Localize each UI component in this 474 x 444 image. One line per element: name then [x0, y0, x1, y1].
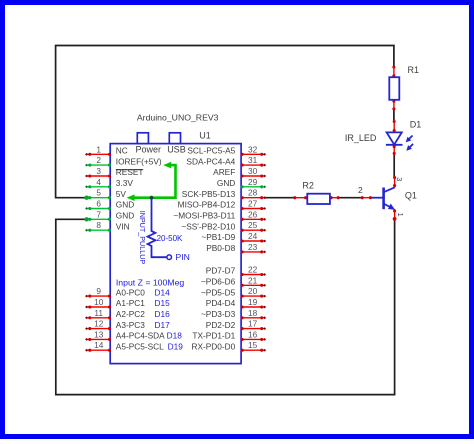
svg-text:28: 28: [248, 188, 258, 198]
node GND junction at pin 7: [84, 217, 88, 221]
IC U1 Arduino_UNO_REV3 body: [110, 133, 241, 364]
resistor R2: [293, 181, 340, 204]
svg-text:4: 4: [96, 177, 101, 187]
svg-text:IR_LED: IR_LED: [345, 133, 377, 143]
svg-text:SCL-PC5-A5: SCL-PC5-A5: [187, 146, 235, 156]
pin 3 RESET: [85, 166, 143, 178]
svg-text:21: 21: [248, 275, 258, 285]
RESET overline: [116, 169, 143, 171]
wire R2 to Q1 base: [338, 197, 362, 199]
pin 28 SCK-PB5-D13: [182, 188, 266, 200]
svg-text:5V: 5V: [116, 189, 127, 199]
svg-text:7: 7: [96, 209, 101, 219]
svg-text:SDA-PC4-A4: SDA-PC4-A4: [186, 156, 235, 166]
pin 2 IOREF(+5V): [85, 155, 162, 167]
svg-text:27: 27: [248, 199, 258, 209]
svg-text:GND: GND: [217, 178, 235, 188]
node PIN terminal: [167, 252, 190, 262]
wire D1 to Q1 collector: [393, 154, 395, 178]
pin 27 MISO-PB4-D12: [178, 199, 266, 211]
pin 32 SCL-PC5-A5: [187, 144, 266, 156]
pin 22 PD7-D7: [206, 265, 266, 277]
pin 21 ~PD6-D6: [201, 275, 266, 287]
resistor R1: [389, 65, 419, 111]
svg-text:12: 12: [94, 319, 104, 329]
svg-text:Q1: Q1: [405, 190, 417, 200]
svg-text:A2-PC2: A2-PC2: [116, 309, 145, 319]
wire 5V net: pin 5 to R1 top via frame left/top: [56, 46, 394, 198]
svg-text:3: 3: [395, 177, 404, 181]
svg-text:25: 25: [248, 220, 258, 230]
svg-text:31: 31: [248, 155, 258, 165]
pin 8 VIN: [85, 220, 130, 232]
pin 19 PD4-D4: [206, 297, 266, 309]
pin 9 A0-PC0 D14: [85, 286, 170, 298]
wire R1 to D1: [393, 108, 395, 122]
svg-text:D18: D18: [167, 331, 183, 341]
node 5V junction at pin 5: [84, 196, 88, 200]
svg-text:A4-PC4-SDA: A4-PC4-SDA: [116, 331, 165, 341]
svg-text:3: 3: [96, 166, 101, 176]
svg-text:18: 18: [248, 308, 258, 318]
pin 11 A2-PC2 D16: [85, 308, 170, 320]
diode D1 IR_LED: [345, 119, 421, 155]
svg-text:8: 8: [96, 220, 101, 230]
svg-text:A0-PC0: A0-PC0: [116, 287, 145, 297]
svg-text:13: 13: [94, 329, 104, 339]
svg-text:PD2-D2: PD2-D2: [206, 320, 236, 330]
svg-text:20: 20: [248, 286, 258, 296]
pin 25 ~SS'-PB2-D10: [181, 220, 266, 232]
svg-text:23: 23: [248, 242, 258, 252]
pin 12 A3-PC3 D17: [85, 319, 170, 331]
transistor Q1 (NPN): [358, 176, 417, 221]
svg-text:32: 32: [248, 144, 258, 154]
svg-text:20-50K: 20-50K: [157, 234, 183, 243]
svg-text:~PB1-D9: ~PB1-D9: [201, 232, 235, 242]
resistor INPUT_PULLUP 20-50K (zigzag): [148, 198, 183, 258]
pin 10 A1-PC1 D15: [85, 297, 170, 309]
pin 26 ~MOSI-PB3-D11: [173, 209, 266, 221]
pin 4 3.3V: [85, 177, 133, 189]
svg-text:A3-PC3: A3-PC3: [116, 320, 145, 330]
svg-text:~MOSI-PB3-D11: ~MOSI-PB3-D11: [173, 211, 235, 221]
svg-text:10: 10: [94, 297, 104, 307]
node pullup tap on green wire: [150, 196, 154, 200]
svg-text:AREF: AREF: [213, 167, 235, 177]
svg-text:17: 17: [248, 319, 258, 329]
svg-text:INPUT_PULLUP: INPUT_PULLUP: [138, 211, 147, 265]
svg-text:D17: D17: [155, 320, 171, 330]
svg-text:D14: D14: [155, 287, 171, 297]
svg-text:A1-PC1: A1-PC1: [116, 298, 145, 308]
wire GND net: pin 7 to Q1 emitter via frame bottom: [56, 219, 395, 395]
wire green: IOREF(+5V) to 5V internal link: [127, 162, 176, 201]
pin 7 GND: [85, 209, 134, 221]
svg-text:USB: USB: [167, 145, 186, 155]
svg-text:GND: GND: [116, 211, 134, 221]
pin 6 GND: [85, 199, 134, 211]
svg-text:R2: R2: [302, 181, 314, 191]
svg-text:2: 2: [96, 155, 101, 165]
svg-text:D15: D15: [155, 298, 171, 308]
svg-text:16: 16: [248, 329, 258, 339]
pin 29 GND: [217, 177, 266, 189]
svg-text:IOREF(+5V): IOREF(+5V): [116, 156, 162, 166]
svg-text:30: 30: [248, 166, 258, 176]
svg-text:~PD3-D3: ~PD3-D3: [201, 309, 236, 319]
svg-text:29: 29: [248, 177, 258, 187]
pin 5 5V: [85, 188, 126, 200]
svg-text:SCK-PB5-D13: SCK-PB5-D13: [182, 189, 236, 199]
svg-text:PB0-D8: PB0-D8: [206, 243, 235, 253]
svg-text:14: 14: [94, 340, 104, 350]
svg-text:U1: U1: [199, 131, 211, 141]
pin 20 ~PD5-D5: [201, 286, 266, 298]
svg-text:D19: D19: [168, 341, 184, 351]
svg-text:NC: NC: [116, 146, 128, 156]
svg-text:D1: D1: [410, 119, 422, 129]
svg-text:~PD5-D5: ~PD5-D5: [201, 287, 236, 297]
svg-text:Arduino_UNO_REV3: Arduino_UNO_REV3: [137, 112, 219, 122]
svg-text:5: 5: [96, 188, 101, 198]
svg-text:26: 26: [248, 209, 258, 219]
svg-text:11: 11: [94, 308, 103, 318]
svg-text:D16: D16: [155, 309, 171, 319]
svg-text:A5-PC5-SCL: A5-PC5-SCL: [116, 341, 164, 351]
svg-text:9: 9: [96, 286, 101, 296]
pin 1 NC: [85, 144, 128, 156]
svg-text:Input Z = 100Meg: Input Z = 100Meg: [116, 277, 185, 287]
svg-text:~PD6-D6: ~PD6-D6: [201, 277, 236, 287]
pin 30 AREF: [213, 166, 266, 178]
pin 15 RX-PD0-D0: [191, 340, 266, 352]
pin 16 TX-PD1-D1: [192, 329, 266, 341]
pin 13 A4-PC4-SDA D18: [85, 329, 182, 341]
svg-text:2: 2: [358, 185, 363, 195]
svg-text:15: 15: [248, 340, 258, 350]
pin 17 PD2-D2: [206, 319, 266, 331]
pin 31 SDA-PC4-A4: [186, 155, 266, 167]
wire pin 28 to R2: [265, 197, 295, 199]
svg-text:6: 6: [96, 199, 101, 209]
svg-text:GND: GND: [116, 200, 134, 210]
svg-text:PIN: PIN: [176, 252, 190, 262]
svg-text:1: 1: [396, 213, 405, 217]
svg-text:22: 22: [248, 265, 258, 275]
svg-text:24: 24: [248, 231, 258, 241]
svg-text:VIN: VIN: [116, 221, 130, 231]
pin 24 ~PB1-D9: [201, 231, 266, 243]
svg-text:Power: Power: [136, 145, 162, 155]
pin 23 PB0-D8: [206, 242, 266, 254]
svg-text:TX-PD1-D1: TX-PD1-D1: [192, 331, 235, 341]
svg-text:PD4-D4: PD4-D4: [206, 298, 236, 308]
svg-text:1: 1: [96, 144, 101, 154]
svg-text:RX-PD0-D0: RX-PD0-D0: [191, 341, 235, 351]
svg-text:19: 19: [248, 297, 258, 307]
svg-text:R1: R1: [408, 65, 420, 75]
svg-text:MISO-PB4-D12: MISO-PB4-D12: [178, 200, 236, 210]
pin 14 A5-PC5-SCL D19: [85, 340, 183, 352]
svg-text:~SS'-PB2-D10: ~SS'-PB2-D10: [181, 221, 235, 231]
svg-text:PD7-D7: PD7-D7: [206, 266, 236, 276]
pin 18 ~PD3-D3: [201, 308, 266, 320]
svg-text:3.3V: 3.3V: [116, 178, 134, 188]
svg-text:RESET: RESET: [116, 167, 144, 177]
